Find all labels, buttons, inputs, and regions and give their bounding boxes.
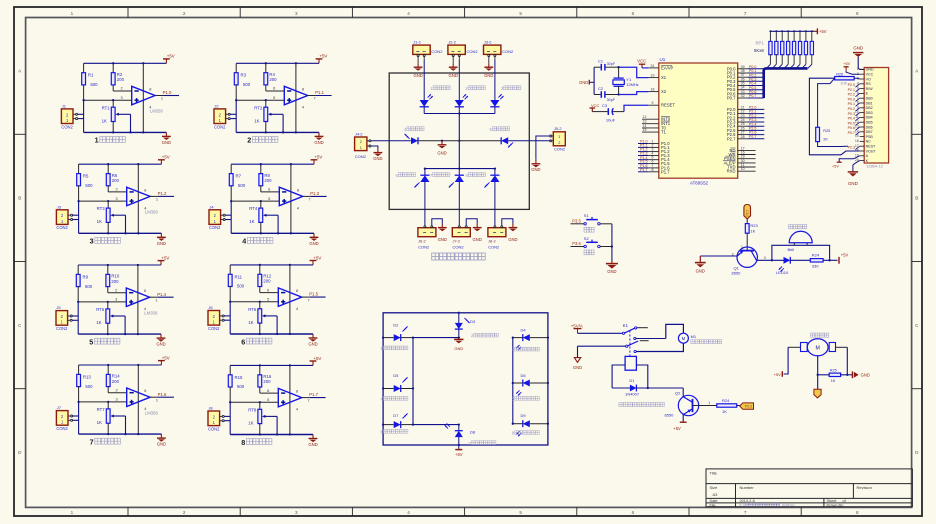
LED D8 IR emitter 7 bbox=[445, 423, 476, 449]
connector J5 CON2 bbox=[56, 305, 68, 331]
svg-text:LED10: LED10 bbox=[776, 270, 789, 275]
svg-text:CON2: CON2 bbox=[488, 245, 500, 250]
connector J3 CON2 bbox=[56, 204, 68, 230]
net labels on LCD pins bbox=[848, 83, 860, 150]
svg-text:GND: GND bbox=[861, 373, 870, 378]
LED D2 IR emitter 1 bbox=[383, 323, 413, 342]
wire opamp power pins bbox=[290, 164, 292, 233]
wire inverting input bbox=[113, 90, 132, 92]
resistor R23 1K bbox=[745, 223, 758, 233]
svg-text:VO: VO bbox=[866, 77, 871, 81]
wire output net P1.0 bbox=[155, 95, 163, 97]
svg-text:12: 12 bbox=[643, 115, 647, 119]
label RP1 5Kx8 bbox=[754, 40, 764, 53]
pins of J4-2 bbox=[367, 140, 369, 142]
svg-text:RT6: RT6 bbox=[248, 307, 257, 312]
svg-text:2: 2 bbox=[183, 510, 186, 515]
svg-text:1: 1 bbox=[708, 401, 710, 405]
resistor RP1-1 bbox=[769, 30, 772, 64]
svg-text:6: 6 bbox=[268, 187, 270, 192]
relay coil K1 bbox=[625, 356, 636, 370]
svg-text:C3: C3 bbox=[602, 103, 608, 108]
svg-text:C2: C2 bbox=[598, 86, 604, 91]
svg-text:+5V: +5V bbox=[162, 355, 170, 360]
svg-text:P0.4: P0.4 bbox=[848, 117, 855, 121]
wire J6-2 pin2 to GND bbox=[432, 219, 443, 226]
svg-text:8: 8 bbox=[856, 11, 859, 16]
wire buttons common bbox=[611, 224, 613, 261]
potentiometer RT3 1K bbox=[97, 201, 114, 233]
svg-text:RP1: RP1 bbox=[756, 40, 765, 45]
wire bus entry bbox=[778, 64, 782, 68]
wire +5V top rail bbox=[79, 364, 162, 366]
power GND left bbox=[579, 80, 594, 85]
svg-text:X1: X1 bbox=[661, 75, 667, 80]
svg-text:M: M bbox=[682, 336, 686, 341]
wires P0.x nets to bus bbox=[748, 65, 764, 98]
label sorting motor bbox=[811, 333, 829, 337]
wire buzzer branch bbox=[772, 245, 830, 260]
wire opamp power pins bbox=[142, 63, 144, 132]
wire gnd vertical bbox=[593, 67, 595, 94]
power +5V bbox=[163, 54, 175, 64]
svg-text:R11: R11 bbox=[235, 274, 243, 279]
resistor R4 bbox=[264, 63, 277, 91]
svg-text:J7-2: J7-2 bbox=[453, 239, 461, 244]
svg-text:Bell: Bell bbox=[788, 247, 795, 252]
svg-text:U1: U1 bbox=[660, 57, 666, 62]
svg-text:1: 1 bbox=[156, 297, 158, 302]
resistor R1 bbox=[82, 63, 98, 100]
connector J8-2 CON2 bbox=[488, 228, 506, 250]
svg-text:GND: GND bbox=[157, 241, 166, 246]
resistor RP1-2 bbox=[775, 30, 778, 64]
wire non-inverting input bbox=[79, 200, 127, 202]
wire relay throw to motor bbox=[636, 338, 666, 340]
resistor R16 bbox=[258, 365, 272, 393]
svg-text:VOUT: VOUT bbox=[866, 149, 877, 153]
svg-text:R7: R7 bbox=[236, 174, 242, 179]
svg-text:5Kx8: 5Kx8 bbox=[754, 48, 764, 53]
resistor R5 bbox=[77, 164, 93, 201]
svg-text:8: 8 bbox=[241, 438, 245, 447]
svg-text:GND: GND bbox=[162, 140, 171, 145]
svg-text:A3: A3 bbox=[713, 492, 719, 497]
svg-text:P0.7: P0.7 bbox=[848, 131, 855, 135]
wires P1.x nets bbox=[638, 140, 648, 172]
pins of J6 bbox=[220, 315, 225, 321]
svg-text:3: 3 bbox=[115, 297, 117, 302]
svg-text:M: M bbox=[816, 346, 820, 352]
svg-text:RT2: RT2 bbox=[254, 105, 263, 110]
svg-text:J6-2: J6-2 bbox=[418, 239, 426, 244]
svg-text:6: 6 bbox=[273, 86, 275, 91]
svg-text:9: 9 bbox=[652, 101, 654, 105]
power VCC reset bbox=[590, 103, 600, 112]
wire J5-2 pin1 to GND bbox=[536, 136, 550, 160]
svg-text:8: 8 bbox=[144, 388, 146, 393]
photodiode array point 1 bbox=[420, 94, 433, 107]
bus P0 bbox=[764, 68, 808, 98]
resistor R25 1K bbox=[829, 369, 840, 384]
resistor R15 bbox=[228, 365, 244, 402]
power +5V backlight bbox=[832, 162, 842, 168]
svg-text:P1.5: P1.5 bbox=[309, 292, 318, 297]
connector J1-2 CON2 bbox=[413, 40, 443, 55]
svg-text:P0.0: P0.0 bbox=[848, 97, 855, 101]
wire LED to R24 bbox=[790, 259, 810, 261]
wire +5V top rail bbox=[84, 62, 167, 64]
svg-text:D7: D7 bbox=[393, 413, 399, 418]
wire A pin to +5V bbox=[839, 156, 860, 162]
wire GND pole bbox=[578, 345, 626, 347]
wire left vertical bbox=[83, 100, 85, 132]
wire J7-2 pin2 to GND bbox=[466, 219, 477, 226]
svg-text:Q2: Q2 bbox=[675, 391, 681, 396]
wire to R25 bbox=[818, 374, 830, 376]
LED D9 IR emitter 8 bbox=[513, 413, 548, 436]
wire photodiode to connector bbox=[458, 182, 460, 226]
wire Q1 collector bbox=[757, 259, 784, 261]
node junctions on +5V rail bbox=[112, 62, 114, 64]
ground bbox=[413, 63, 422, 78]
svg-text:1K: 1K bbox=[249, 219, 254, 224]
svg-text:GND: GND bbox=[531, 167, 540, 172]
ground bbox=[157, 434, 166, 447]
resistor R24 1K bbox=[717, 398, 737, 414]
photodiode array point 6 bbox=[414, 169, 429, 188]
svg-text:P2.7: P2.7 bbox=[749, 135, 756, 139]
label 5 hao IR bbox=[512, 396, 539, 401]
wire P3.6 bbox=[571, 246, 584, 248]
connector J3-2 CON2 bbox=[484, 40, 514, 55]
svg-text:200: 200 bbox=[117, 77, 125, 82]
svg-text:LM358: LM358 bbox=[145, 410, 159, 415]
wire RT2 wiper bbox=[271, 113, 283, 115]
svg-text:J8-2: J8-2 bbox=[488, 239, 496, 244]
wire +5V top rail bbox=[230, 364, 313, 366]
resistor RP1-6 bbox=[798, 30, 801, 64]
wire right inner column bbox=[512, 338, 514, 424]
svg-text:P3.5: P3.5 bbox=[572, 219, 581, 224]
wire photodiode to connector bbox=[494, 182, 496, 226]
resistor R6 bbox=[106, 164, 119, 192]
svg-text:1: 1 bbox=[360, 145, 362, 150]
LED D7 IR emitter 6 bbox=[383, 413, 413, 428]
svg-text:+5V: +5V bbox=[313, 356, 321, 361]
svg-text:32: 32 bbox=[741, 94, 745, 98]
svg-text:1K: 1K bbox=[97, 219, 102, 224]
svg-text:GND: GND bbox=[309, 241, 318, 246]
op-amp U3A LM358 bbox=[116, 187, 159, 215]
svg-text:Revision: Revision bbox=[857, 485, 872, 490]
wire output net P1.6 bbox=[150, 396, 158, 398]
wire coil left bbox=[612, 365, 625, 388]
wire J6 to node bbox=[224, 315, 230, 317]
svg-text:R1: R1 bbox=[88, 73, 94, 78]
wire C3 to RESET bbox=[624, 105, 648, 111]
svg-text:7: 7 bbox=[744, 11, 747, 16]
label 3 hao IR bbox=[512, 347, 539, 352]
motor M1 bbox=[678, 333, 697, 343]
LCD pins bbox=[855, 67, 876, 163]
motor M2 bbox=[801, 339, 836, 356]
svg-text:CON2: CON2 bbox=[56, 225, 68, 230]
svg-text:RXD: RXD bbox=[727, 169, 736, 174]
wire left inner column bbox=[412, 338, 414, 425]
svg-text:4: 4 bbox=[242, 237, 246, 246]
node junctions on +5V rail bbox=[265, 62, 267, 64]
svg-text:28: 28 bbox=[741, 135, 745, 139]
wire J4-2 pin2 into array bbox=[371, 140, 411, 142]
svg-text:Number: Number bbox=[740, 485, 755, 490]
svg-text:CON2: CON2 bbox=[431, 49, 443, 54]
wire bottom row to center bbox=[413, 424, 459, 426]
svg-text:5: 5 bbox=[268, 196, 270, 201]
svg-text:J4-2: J4-2 bbox=[355, 131, 363, 136]
sensor array box outline bbox=[389, 73, 529, 209]
wire J2-2 to photodiode bbox=[458, 60, 460, 100]
MCU U1 AT89S52 bbox=[659, 57, 738, 185]
wire RT3 wiper bbox=[113, 214, 125, 216]
svg-text:DB6: DB6 bbox=[866, 125, 873, 129]
svg-text:2: 2 bbox=[115, 287, 117, 292]
svg-text:DB3: DB3 bbox=[866, 111, 873, 115]
wire left vertical bbox=[78, 402, 80, 434]
wire output net P1.1 bbox=[308, 95, 316, 97]
ground bbox=[308, 435, 317, 448]
svg-text:R24: R24 bbox=[722, 398, 730, 403]
svg-text:2: 2 bbox=[183, 11, 186, 16]
svg-text:GND: GND bbox=[308, 342, 317, 347]
svg-text:File: File bbox=[710, 503, 716, 507]
wire bus entry bbox=[796, 64, 800, 68]
ground bbox=[314, 132, 323, 145]
wire GND bottom rail bbox=[230, 333, 313, 335]
wire port to R23 bbox=[746, 219, 748, 224]
svg-text:8550: 8550 bbox=[732, 270, 742, 275]
power +5V bbox=[774, 371, 783, 377]
LCD module box bbox=[864, 68, 888, 169]
svg-text:+5V: +5V bbox=[832, 165, 839, 169]
svg-text:GND: GND bbox=[696, 268, 705, 273]
svg-text:R26: R26 bbox=[836, 72, 843, 76]
wire GND bottom rail bbox=[231, 232, 314, 234]
wire non-inverting input bbox=[230, 301, 278, 303]
wire inverting input bbox=[260, 392, 279, 394]
wire GND bottom rail bbox=[230, 434, 313, 436]
wire non-inverting input bbox=[236, 99, 284, 101]
svg-text:+5V: +5V bbox=[319, 54, 327, 59]
svg-text:1K: 1K bbox=[248, 420, 253, 425]
wire Q1 emitter to GND bbox=[700, 255, 737, 257]
svg-text:RT7: RT7 bbox=[97, 407, 106, 412]
svg-text:R25: R25 bbox=[830, 369, 837, 373]
node junctions on +5V rail bbox=[259, 264, 261, 266]
svg-text:8: 8 bbox=[297, 187, 299, 192]
svg-text:3: 3 bbox=[116, 397, 118, 402]
photodiode array point 8 bbox=[484, 169, 499, 188]
pins of J3 bbox=[68, 214, 73, 220]
svg-text:1: 1 bbox=[558, 134, 560, 139]
svg-text:.SchDoc: .SchDoc bbox=[781, 503, 795, 507]
LED LED10 bbox=[776, 257, 790, 275]
svg-text:1K: 1K bbox=[254, 118, 259, 123]
wire GND bottom rail bbox=[236, 131, 319, 133]
wire J2 to node bbox=[230, 113, 236, 115]
connector J4 CON2 bbox=[209, 204, 221, 230]
svg-text:8: 8 bbox=[296, 389, 298, 394]
svg-text:31: 31 bbox=[651, 64, 655, 68]
pins of J6-2 bbox=[424, 226, 426, 228]
connector J7-2 CON2 bbox=[452, 228, 470, 250]
pins of J7 bbox=[68, 415, 73, 421]
wire top row bus bbox=[424, 113, 495, 115]
wire left vertical bbox=[235, 100, 237, 132]
pins of J5 bbox=[68, 315, 73, 321]
svg-text:1K: 1K bbox=[97, 420, 102, 425]
svg-text:+5V: +5V bbox=[841, 252, 849, 257]
svg-text:1K: 1K bbox=[750, 228, 755, 233]
wire non-inverting input bbox=[78, 301, 126, 303]
svg-text:8: 8 bbox=[652, 168, 654, 172]
svg-text:3: 3 bbox=[295, 510, 298, 515]
wire top row to center bbox=[413, 337, 459, 339]
svg-text:S2: S2 bbox=[584, 236, 590, 241]
svg-text:200: 200 bbox=[263, 379, 271, 384]
svg-text:500: 500 bbox=[243, 82, 251, 87]
svg-text:P1.7: P1.7 bbox=[661, 169, 670, 174]
op-amp U5A LM358 bbox=[116, 387, 159, 415]
resistor R3 bbox=[234, 63, 250, 100]
wire middle row bbox=[418, 140, 501, 142]
svg-text:R15: R15 bbox=[235, 375, 243, 380]
svg-text:7: 7 bbox=[744, 510, 747, 515]
connector J6 CON2 bbox=[208, 305, 220, 331]
svg-text:RT4: RT4 bbox=[249, 206, 258, 211]
svg-text:500: 500 bbox=[238, 183, 246, 188]
svg-text:GND: GND bbox=[473, 237, 482, 242]
svg-text:1: 1 bbox=[156, 397, 158, 402]
port P3.3 bbox=[740, 403, 754, 409]
resistor R13 bbox=[77, 365, 93, 402]
svg-text:10: 10 bbox=[741, 167, 745, 171]
ground bbox=[309, 233, 318, 246]
ground bbox=[484, 63, 493, 78]
svg-text:GND: GND bbox=[508, 237, 517, 242]
node junctions on +5V rail bbox=[107, 264, 109, 266]
svg-text:CON2: CON2 bbox=[56, 326, 68, 331]
connector J7 CON2 bbox=[56, 405, 68, 431]
wire motor left to +5V bbox=[788, 346, 800, 348]
svg-text:1: 1 bbox=[161, 96, 163, 101]
svg-text:LM358: LM358 bbox=[144, 310, 158, 315]
connector J6-2 CON2 bbox=[418, 228, 436, 250]
photodiode array point 4 bbox=[405, 134, 419, 145]
ground bbox=[438, 224, 447, 243]
power +5V bbox=[158, 355, 170, 365]
power +5V LCD bbox=[843, 62, 850, 71]
svg-text:RT5: RT5 bbox=[96, 307, 105, 312]
switch S2 bbox=[584, 236, 600, 248]
label 8 hao IR bbox=[512, 431, 539, 436]
potentiometer RT2 1K bbox=[254, 100, 271, 132]
svg-text:P1.3: P1.3 bbox=[310, 191, 319, 196]
svg-text:P0.7: P0.7 bbox=[727, 96, 736, 101]
ground arrow bbox=[573, 346, 582, 370]
svg-text:7: 7 bbox=[309, 197, 311, 202]
label 3 hao zhenliedian bbox=[501, 86, 521, 91]
ground mid array bbox=[441, 140, 443, 142]
svg-text:M1: M1 bbox=[691, 334, 697, 339]
caption guangdian array sensor bbox=[432, 253, 486, 260]
wire output net P1.3 bbox=[303, 195, 311, 197]
svg-text:S1: S1 bbox=[584, 213, 590, 218]
wire coil right bbox=[636, 365, 647, 388]
svg-text:500: 500 bbox=[85, 284, 93, 289]
svg-text:10K: 10K bbox=[840, 82, 847, 86]
wire J4-2 pin1 to GND bbox=[371, 146, 378, 149]
wire inverting input bbox=[108, 392, 127, 394]
wire R25 right bbox=[841, 374, 853, 376]
svg-text:VCC: VCC bbox=[591, 103, 600, 108]
svg-text:10uF: 10uF bbox=[606, 118, 616, 123]
svg-text:+5V: +5V bbox=[161, 255, 169, 260]
wire J5 to node bbox=[72, 315, 78, 317]
wire +5V top rail bbox=[236, 62, 319, 64]
svg-text:GND: GND bbox=[438, 237, 447, 242]
ground above LCD bbox=[853, 45, 864, 69]
svg-text:CON2: CON2 bbox=[554, 147, 566, 152]
svg-text:7: 7 bbox=[314, 96, 316, 101]
svg-text:6: 6 bbox=[267, 388, 269, 393]
wire bus entry bbox=[790, 64, 794, 68]
wire opamp power pins bbox=[137, 265, 139, 334]
wire output net P1.5 bbox=[302, 296, 310, 298]
svg-text:8: 8 bbox=[856, 510, 859, 515]
svg-text:1: 1 bbox=[857, 67, 859, 71]
svg-text:16: 16 bbox=[855, 139, 859, 143]
wire left vertical bbox=[77, 302, 79, 334]
svg-text:200: 200 bbox=[269, 77, 277, 82]
svg-text:GND: GND bbox=[308, 442, 317, 447]
svg-text:330: 330 bbox=[812, 263, 819, 268]
transistor Q2 8550 bbox=[665, 391, 711, 418]
svg-text:7: 7 bbox=[90, 437, 94, 446]
ground bbox=[373, 149, 382, 162]
wire to X1 bbox=[619, 67, 649, 77]
svg-text:GND: GND bbox=[579, 80, 588, 85]
wire RT4 wiper bbox=[266, 214, 278, 216]
wire non-inverting input bbox=[79, 401, 127, 403]
svg-text:D6: D6 bbox=[521, 373, 527, 378]
wire photodiode to connector bbox=[424, 182, 426, 226]
svg-text:30pF: 30pF bbox=[607, 62, 616, 66]
label 5 hao zhenliedian bbox=[490, 127, 510, 132]
svg-text:RT3: RT3 bbox=[97, 206, 106, 211]
wire J7 to node bbox=[73, 415, 79, 417]
wire opamp power pins bbox=[137, 365, 139, 434]
wire J3-2 to photodiode bbox=[494, 60, 496, 100]
wire +5V top rail bbox=[230, 264, 313, 266]
power +5V bbox=[158, 155, 170, 165]
power +5V bbox=[311, 155, 323, 165]
svg-text:200: 200 bbox=[112, 379, 120, 384]
resistor R8 bbox=[259, 164, 272, 192]
ground bbox=[606, 261, 618, 274]
svg-text:EA/VP: EA/VP bbox=[661, 65, 674, 70]
svg-text:4: 4 bbox=[407, 11, 410, 16]
